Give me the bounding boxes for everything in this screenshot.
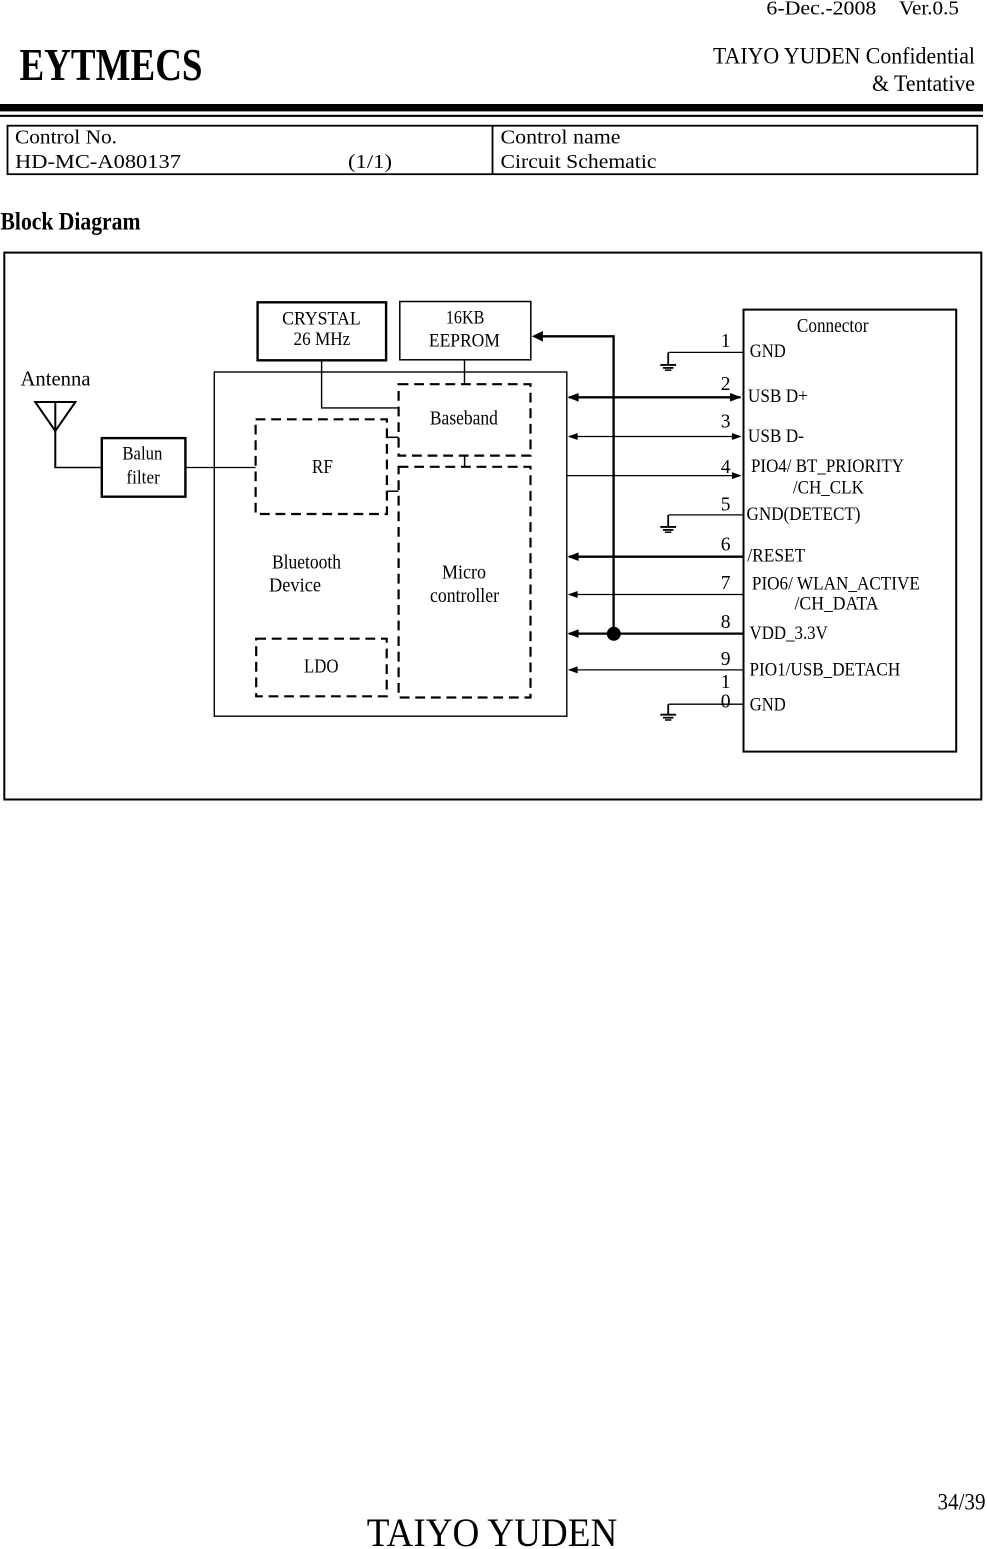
svg-text:4: 4 bbox=[721, 457, 731, 478]
svg-text:3: 3 bbox=[721, 412, 731, 433]
wire pin 3 USB D- bbox=[568, 433, 742, 440]
svg-text:EYTMECS: EYTMECS bbox=[20, 39, 203, 90]
svg-text:Control name: Control name bbox=[501, 126, 621, 148]
crystal 26 MHz bbox=[258, 302, 387, 360]
pin 6 number bbox=[721, 535, 731, 556]
svg-text:34/39: 34/39 bbox=[938, 1490, 986, 1515]
pin 4 number bbox=[721, 457, 731, 478]
wire VDD_3.3V bus to EEPROM bbox=[532, 331, 614, 634]
svg-text:Device: Device bbox=[269, 575, 321, 597]
ground pin 10 bbox=[660, 704, 676, 720]
svg-text:filter: filter bbox=[126, 469, 159, 489]
wire balun filter to RF bbox=[185, 467, 256, 469]
wire pin 10 GND bbox=[669, 703, 744, 705]
svg-text:6: 6 bbox=[721, 535, 731, 556]
svg-text:RF: RF bbox=[312, 456, 333, 478]
wire RF to Baseband bbox=[387, 436, 399, 438]
wire pin 8 VDD_3.3V bbox=[567, 629, 743, 638]
wire pin 6 /RESET bbox=[567, 552, 743, 561]
FOOTER bbox=[367, 1490, 986, 1549]
pin 7 number bbox=[721, 573, 731, 594]
svg-text:Connector: Connector bbox=[797, 316, 869, 337]
net label USB D- bbox=[748, 427, 804, 447]
wire antenna to balun filter bbox=[54, 467, 100, 469]
svg-text:/CH_DATA: /CH_DATA bbox=[795, 595, 880, 615]
wire Baseband to Micro controller bbox=[464, 456, 466, 467]
wire crystal to Baseband bbox=[322, 361, 399, 408]
CONTROL TABLE bbox=[8, 126, 978, 175]
svg-text:Control No.: Control No. bbox=[15, 126, 117, 148]
svg-text:HD-MC-A080137: HD-MC-A080137 bbox=[15, 151, 181, 173]
net label VDD_3.3V bbox=[750, 624, 829, 644]
wire pin 2 USB D+ bbox=[567, 393, 741, 402]
net label GND pin 10 bbox=[750, 696, 786, 716]
svg-text:GND(DETECT): GND(DETECT) bbox=[747, 505, 861, 525]
svg-text:LDO: LDO bbox=[304, 655, 339, 677]
svg-text:1: 1 bbox=[721, 672, 731, 693]
Baseband block bbox=[399, 384, 531, 455]
ground pin 1 bbox=[660, 352, 676, 370]
net label /RESET bbox=[747, 546, 805, 566]
net label PIO1/USB_DETACH bbox=[750, 660, 901, 680]
wire pin 5 GND(DETECT) bbox=[669, 514, 744, 516]
pin 3 number bbox=[721, 412, 731, 433]
svg-text:PIO4/ BT_PRIORITY: PIO4/ BT_PRIORITY bbox=[751, 457, 904, 477]
svg-text:Ver.0.5: Ver.0.5 bbox=[899, 0, 959, 20]
svg-text:GND: GND bbox=[750, 696, 786, 716]
wire pin 4 PIO4 bbox=[567, 472, 742, 479]
wire pin 1 GND bbox=[669, 351, 744, 353]
svg-text:Block Diagram: Block Diagram bbox=[1, 206, 141, 235]
wire pin 7 PIO6 bbox=[568, 591, 744, 598]
svg-text:GND: GND bbox=[750, 342, 786, 362]
svg-text:Bluetooth: Bluetooth bbox=[272, 552, 341, 574]
EEPROM bbox=[400, 302, 531, 360]
svg-text:Micro: Micro bbox=[442, 562, 486, 584]
antenna bbox=[35, 402, 75, 468]
net label PIO4/ BT_PRIORITY bbox=[751, 457, 904, 499]
RF block bbox=[256, 419, 387, 514]
LDO block bbox=[256, 639, 387, 697]
svg-text:TAIYO YUDEN: TAIYO YUDEN bbox=[367, 1510, 618, 1549]
Bluetooth Device module bbox=[214, 372, 567, 716]
antenna label bbox=[21, 367, 91, 391]
svg-text:2: 2 bbox=[721, 374, 731, 395]
pin 5 number bbox=[721, 495, 731, 516]
svg-text:PIO6/ WLAN_ACTIVE: PIO6/ WLAN_ACTIVE bbox=[752, 574, 920, 594]
wire RF to Micro controller bbox=[387, 490, 399, 492]
svg-text:controller: controller bbox=[430, 585, 499, 607]
svg-text:9: 9 bbox=[721, 649, 731, 670]
pin 8 number bbox=[721, 612, 731, 633]
svg-text:VDD_3.3V: VDD_3.3V bbox=[750, 624, 829, 644]
svg-text:/CH_CLK: /CH_CLK bbox=[793, 479, 865, 499]
connector J1 bbox=[744, 310, 957, 752]
HEADER bbox=[0, 0, 983, 117]
svg-text:& Tentative: & Tentative bbox=[872, 71, 975, 96]
net label GND pin 1 bbox=[750, 342, 786, 362]
ground pin 5 bbox=[660, 515, 676, 532]
svg-text:0: 0 bbox=[721, 692, 731, 713]
wire pin 9 PIO1 bbox=[568, 666, 744, 673]
svg-text:PIO1/USB_DETACH: PIO1/USB_DETACH bbox=[750, 660, 901, 680]
net label PIO6/ WLAN_ACTIVE bbox=[752, 574, 920, 614]
svg-text:1: 1 bbox=[721, 331, 731, 352]
svg-text:Baseband: Baseband bbox=[430, 407, 498, 429]
svg-text:TAIYO YUDEN Confidential: TAIYO YUDEN Confidential bbox=[713, 44, 975, 69]
svg-text:USB D+: USB D+ bbox=[748, 387, 808, 407]
wire EEPROM to Baseband bbox=[464, 361, 466, 385]
svg-text:8: 8 bbox=[721, 612, 731, 633]
pin 2 number bbox=[721, 374, 731, 395]
pin 1 number bbox=[721, 331, 731, 352]
pin 9 number bbox=[721, 649, 731, 670]
junction VDD node bbox=[607, 627, 621, 641]
pin 10 number bbox=[721, 672, 731, 713]
svg-text:Circuit Schematic: Circuit Schematic bbox=[501, 151, 657, 173]
svg-text:USB D-: USB D- bbox=[748, 427, 804, 447]
svg-text:/RESET: /RESET bbox=[747, 546, 805, 566]
svg-text:5: 5 bbox=[721, 495, 731, 516]
DIAGRAM FRAME bbox=[4, 253, 981, 800]
net label USB D+ bbox=[748, 387, 808, 407]
balun filter bbox=[102, 438, 186, 497]
Micro controller block bbox=[399, 467, 531, 698]
svg-text:7: 7 bbox=[721, 573, 731, 594]
svg-text:(1/1): (1/1) bbox=[348, 151, 392, 173]
svg-text:26 MHz: 26 MHz bbox=[294, 330, 351, 350]
net label GND(DETECT) bbox=[747, 505, 861, 525]
svg-text:Antenna: Antenna bbox=[21, 367, 91, 391]
svg-text:EEPROM: EEPROM bbox=[429, 332, 500, 352]
svg-text:CRYSTAL: CRYSTAL bbox=[282, 309, 361, 329]
svg-text:Balun: Balun bbox=[122, 444, 162, 464]
svg-text:16KB: 16KB bbox=[446, 308, 484, 328]
svg-text:6-Dec.-2008: 6-Dec.-2008 bbox=[766, 0, 876, 20]
